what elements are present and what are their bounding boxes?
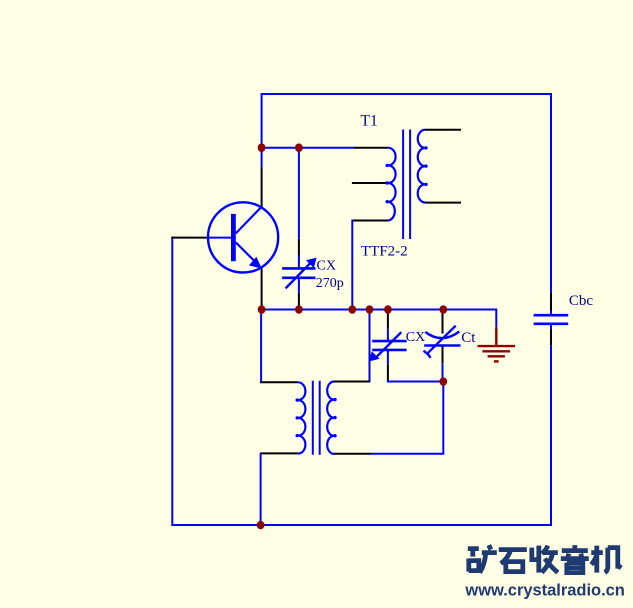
wire left vertical (base to bottom bus) [171, 237, 173, 526]
transformer L2 core [312, 381, 314, 455]
wire L2 primary top lead (black) [260, 381, 298, 383]
wire middle bus y309 [262, 309, 497, 311]
wire Cbc bottom pin (blue stub) [550, 324, 552, 329]
wire base lead inside transistor (blue) [208, 237, 232, 239]
transformer T1 primary winding [388, 148, 395, 221]
wire top bus [261, 93, 552, 95]
wire CX 270p bottom pin (black) [298, 293, 300, 310]
junction dot (369.5,309.5) [366, 305, 374, 314]
svg-text:CX: CX [317, 258, 336, 273]
wire vertical x261 (L2 primary bottom to bottom bus) [260, 453, 262, 525]
wire Cbc top pin (black) [550, 293, 552, 311]
wire CX2 bottom pin (black) [387, 364, 389, 380]
wire collector vertical (blue upper) [261, 94, 263, 167]
wire T1 primary top lead (black) [354, 147, 389, 149]
capacitor CX1 arrow [286, 262, 312, 289]
svg-text:TTF2-2: TTF2-2 [361, 243, 408, 259]
wire right vertical lower (Cbc to bottom bus) [550, 345, 552, 526]
wire Ct bottom pin (blue) [442, 363, 444, 381]
wire horizontal at y148 (blue) [262, 147, 354, 149]
wire L2 primary bottom lead (black) [260, 452, 298, 454]
wire base lead (black) [171, 237, 208, 239]
transformer L2 primary winding [298, 382, 305, 453]
wire CX 270p top pin (black) [298, 239, 300, 256]
wire L2 secondary top lead (black) [334, 381, 370, 383]
wire L2 secondary bottom lead (black) [334, 453, 371, 455]
capacitor CX1 270p plates [282, 267, 315, 270]
wire T1 secondary bottom stub (black) [425, 202, 461, 204]
junction dot (443.3,309.5) [439, 305, 447, 314]
watermark chinese characters [468, 545, 621, 573]
wire vertical x261 (bus to L2 primary top) [260, 310, 262, 383]
wire collector vertical (black pin) [261, 167, 263, 207]
wire L2 secondary bottom lead (blue) [371, 453, 444, 455]
wire ground branch vertical (blue) [495, 309, 497, 328]
junction dot (352.3,309.5) [348, 305, 356, 314]
svg-text:Cbc: Cbc [569, 293, 594, 309]
wire T1 primary tap stub (black) [352, 182, 389, 184]
wire vertical x369 (bus to L2 secondary top) [369, 310, 371, 383]
wire CX2 bottom pin (blue) [387, 350, 389, 364]
junction dot (443.3,381.5) [439, 377, 447, 386]
capacitor CX2 arrow [374, 332, 401, 359]
wire right vertical upper (to Cbc) [550, 93, 552, 293]
capacitor Ct arrow [428, 326, 456, 353]
wire CX2 top pin (blue) [387, 328, 389, 341]
junction dot (298.9,309.5) [295, 305, 303, 314]
wire T1 primary bottom lead (black) [352, 220, 388, 222]
wire emitter vertical (black pin) [261, 268, 263, 309]
wire vertical x443 (node to L2 secondary bottom) [442, 382, 444, 454]
wire T1 secondary top stub (black) [425, 129, 461, 131]
junction dot (260.6,525) [257, 521, 265, 530]
wire bottom bus [171, 524, 552, 526]
junction dot (298.9,147.7) [295, 143, 303, 152]
svg-text:Ct: Ct [461, 330, 476, 346]
svg-text:www.crystalradio.cn: www.crystalradio.cn [464, 581, 625, 599]
wire Cbc top pin (blue stub) [550, 311, 552, 316]
svg-text:270p: 270p [316, 276, 344, 291]
wire corner CX2 to node y381 [388, 380, 443, 382]
wire vertical x352 (T1 bottom lead to bus) [351, 220, 353, 310]
wire Ct bottom pin (black) [442, 346, 444, 364]
capacitor Ct curved plate [425, 332, 459, 339]
wire Ct top pin (black) [442, 313, 444, 334]
transformer T1 secondary winding [418, 130, 425, 203]
wire CX 270p top pin (blue) [298, 256, 300, 269]
transformer L2 secondary winding [327, 382, 334, 454]
wire CX 270p bottom pin (blue) [298, 278, 300, 293]
transistor Q1 [208, 202, 278, 272]
capacitor Cbc plates [534, 314, 569, 317]
wire vertical x299 (junction to CX top) [298, 148, 300, 239]
svg-text:CX: CX [406, 330, 425, 345]
svg-text:T1: T1 [361, 112, 378, 129]
transformer T1 core [402, 130, 404, 240]
junction dot (387.9,309.5) [384, 305, 392, 314]
wire CX2 top pin (black) [387, 313, 389, 329]
capacitor Ct bottom plate [424, 344, 460, 347]
wire Cbc bottom pin (black) [550, 329, 552, 345]
ground symbol [478, 328, 516, 362]
junction dot (261.6,147.7) [258, 143, 266, 152]
junction dot (261.6,309.5) [258, 305, 266, 314]
capacitor CX2 plates [372, 340, 406, 343]
